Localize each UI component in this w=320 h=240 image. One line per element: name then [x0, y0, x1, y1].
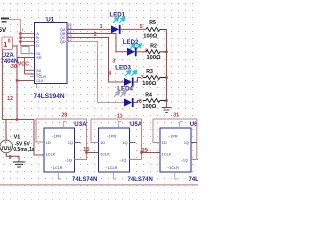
svg-text:100Ω: 100Ω — [142, 104, 156, 110]
wire U3A feedback net 28 — [36, 119, 87, 160]
wire LED3 to R3 net 7 — [134, 78, 141, 83]
svg-text:74LS74N: 74LS74N — [128, 177, 153, 183]
node R3 bus junction — [165, 76, 167, 78]
svg-text:0: 0 — [8, 39, 11, 45]
svg-text:12: 12 — [7, 96, 13, 102]
svg-text:4: 4 — [22, 28, 24, 32]
svg-text:R3: R3 — [146, 69, 153, 75]
svg-text:QD: QD — [60, 40, 66, 44]
svg-text:1Q: 1Q — [184, 141, 189, 145]
grid dots — [0, 0, 198, 186]
clock source V1 — [5, 120, 7, 141]
wire U5A PR stub — [118, 122, 121, 129]
wire QC to LED3 net 3 — [67, 38, 124, 83]
wire U3A CLR stub — [58, 172, 61, 179]
svg-text:1D: 1D — [162, 141, 167, 145]
svg-text:1: 1 — [100, 24, 103, 30]
ground V1 — [6, 153, 19, 162]
svg-text:1: 1 — [3, 40, 7, 49]
svg-text:R5: R5 — [149, 20, 156, 26]
wire CLK from V1 rail — [17, 80, 35, 82]
wire inverter input — [24, 46, 26, 47]
node C junction — [19, 40, 21, 42]
svg-text:U1: U1 — [46, 16, 54, 23]
node A junction — [19, 32, 21, 34]
svg-text:~1CLR: ~1CLR — [51, 166, 63, 170]
svg-text:1CLK: 1CLK — [100, 153, 110, 157]
svg-text:28: 28 — [62, 113, 68, 119]
svg-text:5V: 5V — [0, 27, 7, 34]
svg-text:~1Q: ~1Q — [65, 158, 72, 162]
svg-text:100Ω: 100Ω — [143, 34, 157, 40]
svg-text:~1PR: ~1PR — [52, 134, 62, 138]
wire left rail net 12 — [2, 50, 44, 156]
wire pin stubs A B C D — [21, 34, 35, 46]
svg-text:CLK: CLK — [36, 79, 44, 83]
svg-text:30: 30 — [11, 64, 17, 70]
node CLK junction — [16, 79, 18, 81]
svg-text:1D: 1D — [100, 141, 105, 145]
svg-text:VCC: VCC — [18, 61, 29, 67]
wire CLR stub — [30, 76, 35, 78]
wire inverter output to SL — [22, 53, 35, 55]
wire LED4 to R4 net 8 — [134, 101, 141, 103]
svg-text:~1Q: ~1Q — [119, 158, 126, 162]
wire U5A feedback net 11 — [91, 119, 142, 160]
pin numbers right — [68, 23, 72, 42]
ground bus — [162, 108, 172, 113]
svg-text:SR: SR — [36, 56, 42, 60]
svg-text:0.5ms,1s: 0.5ms,1s — [13, 147, 34, 153]
svg-text:+: + — [4, 140, 7, 145]
svg-text:R4: R4 — [145, 92, 152, 98]
wire QB to LED2 net 2 — [67, 34, 127, 52]
svg-text:5: 5 — [140, 24, 143, 30]
svg-text:U5A: U5A — [130, 121, 143, 128]
wire U6 CLR stub — [175, 172, 178, 179]
svg-text:R2: R2 — [150, 43, 157, 49]
svg-text:~1PR: ~1PR — [107, 134, 117, 138]
wire U3A 1Q out — [75, 142, 81, 144]
svg-text:V1: V1 — [14, 135, 21, 141]
svg-text:1Q: 1Q — [68, 141, 73, 145]
svg-text:15: 15 — [83, 147, 89, 153]
flip-flop U3A box — [44, 128, 75, 172]
pin labels left — [36, 32, 46, 83]
svg-text:29: 29 — [142, 148, 148, 154]
wire 5V to pins A-D — [5, 20, 21, 46]
svg-text:1D: 1D — [46, 141, 51, 145]
wire chain U5A to U6 net 29 — [142, 152, 161, 154]
svg-text:74LS74N: 74LS74N — [72, 177, 97, 183]
svg-text:74LS74N: 74LS74N — [189, 177, 199, 183]
wire chain U3A to U5A net 15 — [87, 152, 99, 154]
sheet border line — [0, 184, 198, 185]
svg-text:1Q: 1Q — [122, 141, 127, 145]
node V1 junction — [16, 118, 18, 120]
power 5V bar — [1, 18, 9, 20]
wire U6 feedback net 31 — [191, 159, 198, 161]
wire resistor bus — [166, 29, 168, 107]
pin 1 bottom stub — [36, 84, 38, 89]
svg-text:100Ω: 100Ω — [147, 55, 161, 61]
flip-flop U5A box — [99, 128, 130, 172]
node U5A q junction — [140, 151, 142, 153]
svg-text:4: 4 — [108, 71, 111, 77]
svg-text:U3A: U3A — [74, 121, 87, 128]
svg-text:31: 31 — [173, 112, 179, 118]
svg-text:~1Q: ~1Q — [181, 158, 188, 162]
wire QA to LED1 net 1 — [67, 28, 111, 30]
wire U3A PR stub — [63, 122, 66, 129]
svg-text:100Ω: 100Ω — [142, 81, 156, 87]
node R2 bus junction — [165, 51, 167, 53]
wire U5A CLR stub — [113, 172, 116, 179]
svg-text:11: 11 — [117, 113, 123, 119]
node R4 bus junction — [165, 99, 167, 101]
svg-text:U2A: U2A — [2, 53, 15, 59]
wire U5A 1Q out — [130, 142, 136, 144]
flip-flop U6 box — [160, 128, 191, 172]
wire U6 PR stub — [180, 122, 183, 129]
svg-text:1CLK: 1CLK — [162, 153, 172, 157]
wire switch to CLR rail — [13, 46, 18, 120]
wire LED2 to R2 net 6 — [137, 51, 146, 53]
svg-text:~1PR: ~1PR — [168, 134, 178, 138]
wire U6 1Q out — [191, 142, 197, 144]
wire LED1 to R5 net 5 — [121, 28, 146, 30]
svg-text:74LS194N: 74LS194N — [34, 93, 65, 100]
switch J1 digital constant 1/0 — [2, 37, 13, 50]
svg-text:1CLK: 1CLK — [46, 153, 56, 157]
wire VCC to S0 S1 — [18, 58, 35, 75]
node B junction — [19, 36, 21, 38]
svg-text:~1CLR: ~1CLR — [167, 166, 179, 170]
shift register U1 74LS194N box — [35, 23, 68, 84]
pin labels right — [60, 28, 66, 44]
svg-text:~1CLR: ~1CLR — [106, 166, 118, 170]
node U3A q junction — [85, 151, 87, 153]
wire QD to LED4 net 4 — [67, 42, 124, 103]
svg-text:D: D — [36, 44, 39, 48]
